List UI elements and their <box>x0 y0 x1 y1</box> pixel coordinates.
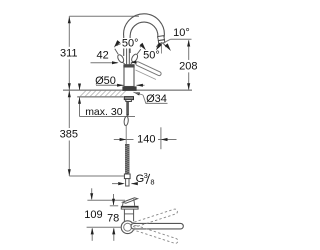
tv dim 109 top arrow <box>91 188 93 199</box>
mounting nut <box>124 97 133 100</box>
diam50 underline+arrows <box>96 84 118 86</box>
140 right ext line <box>160 127 162 149</box>
311/385 dimension vertical line <box>68 16 70 176</box>
body top collar <box>123 65 134 68</box>
small arrow at stem <box>130 61 136 64</box>
deck top line <box>63 89 192 91</box>
svg-text:50°: 50° <box>143 50 160 62</box>
385 bottom extension <box>69 175 124 177</box>
label 208 <box>178 60 199 72</box>
svg-text:109: 109 <box>84 209 102 221</box>
threaded stud <box>126 102 129 116</box>
arrow 385 bottom <box>68 169 71 176</box>
svg-text:max. 30: max. 30 <box>85 106 123 118</box>
braided hose <box>125 144 130 174</box>
G3/8 tube <box>126 179 129 186</box>
tv body ring inner <box>124 223 132 231</box>
lever lower line <box>136 70 157 80</box>
svg-text:3: 3 <box>144 171 148 180</box>
knob left <box>117 54 125 64</box>
top extension line (spout top) <box>69 15 139 17</box>
pull cord loop <box>124 116 129 126</box>
svg-text:385: 385 <box>60 129 78 141</box>
spout 50deg arc <box>156 44 159 48</box>
10deg horizontal line <box>170 38 191 40</box>
svg-text:311: 311 <box>60 47 78 59</box>
tv bottom arrows <box>91 228 93 240</box>
svg-text:50°: 50° <box>122 38 139 50</box>
label 50deg handle <box>121 38 140 48</box>
svg-text:78: 78 <box>107 213 119 225</box>
washer <box>126 100 132 102</box>
cord line down / 140 left ext <box>125 126 127 150</box>
208 dim line <box>188 40 190 89</box>
base flange <box>122 86 136 91</box>
tv lever dashed down <box>132 225 178 244</box>
aerator outlet <box>158 40 165 44</box>
svg-text:10°: 10° <box>173 27 190 39</box>
arrow 385 at deck <box>68 91 71 98</box>
outlet axis tick <box>160 42 162 54</box>
tv lever solid <box>131 223 183 229</box>
diam34 underline <box>146 102 168 104</box>
tv baseline <box>87 226 121 228</box>
svg-text:8: 8 <box>150 178 154 187</box>
arrow 311 top <box>68 17 71 24</box>
140 dim line <box>114 139 134 141</box>
tv dim 109 top line <box>87 199 125 201</box>
tv dim 78 top line <box>110 205 118 207</box>
cartridge stem <box>126 48 128 65</box>
handle 50deg arc <box>117 43 125 46</box>
max30 underline <box>80 116 136 118</box>
spout arc outer <box>124 14 165 39</box>
diam34 leader arrow <box>133 92 140 95</box>
deck bottom line left <box>77 96 123 98</box>
tv spout tube <box>123 198 138 203</box>
tv lever dashed up <box>132 208 178 227</box>
tv spout top line <box>121 203 124 206</box>
spout arc inner <box>130 22 158 37</box>
max30 dim: lower line+arrow <box>79 97 81 117</box>
svg-text:42: 42 <box>96 50 108 62</box>
handle arc arrowheads <box>114 40 120 48</box>
42 dim arrow <box>91 62 118 64</box>
lever side outline <box>135 61 162 76</box>
knob right <box>130 53 138 63</box>
G3/8 arrows <box>112 183 118 185</box>
arrow 311 bottom <box>68 83 71 90</box>
hose end fitting <box>124 174 130 179</box>
label 50deg spout <box>142 50 161 60</box>
tv body ring outer <box>121 221 134 234</box>
label 385 <box>58 128 79 140</box>
svg-text:Ø34: Ø34 <box>146 93 167 105</box>
max30 dim: upper arrow <box>79 84 81 91</box>
knob stems <box>115 49 118 54</box>
10deg slanted line <box>161 39 170 44</box>
svg-text:208: 208 <box>179 61 197 73</box>
body column <box>124 65 134 87</box>
svg-text:140: 140 <box>137 134 155 146</box>
tv dim 78 top arrow <box>113 194 115 205</box>
neck left lines <box>123 36 125 57</box>
tv neck lines <box>123 209 125 221</box>
tv spout flange <box>121 206 138 209</box>
spout collar <box>158 36 165 41</box>
deck hatching <box>80 91 86 97</box>
label 311 <box>58 47 79 59</box>
